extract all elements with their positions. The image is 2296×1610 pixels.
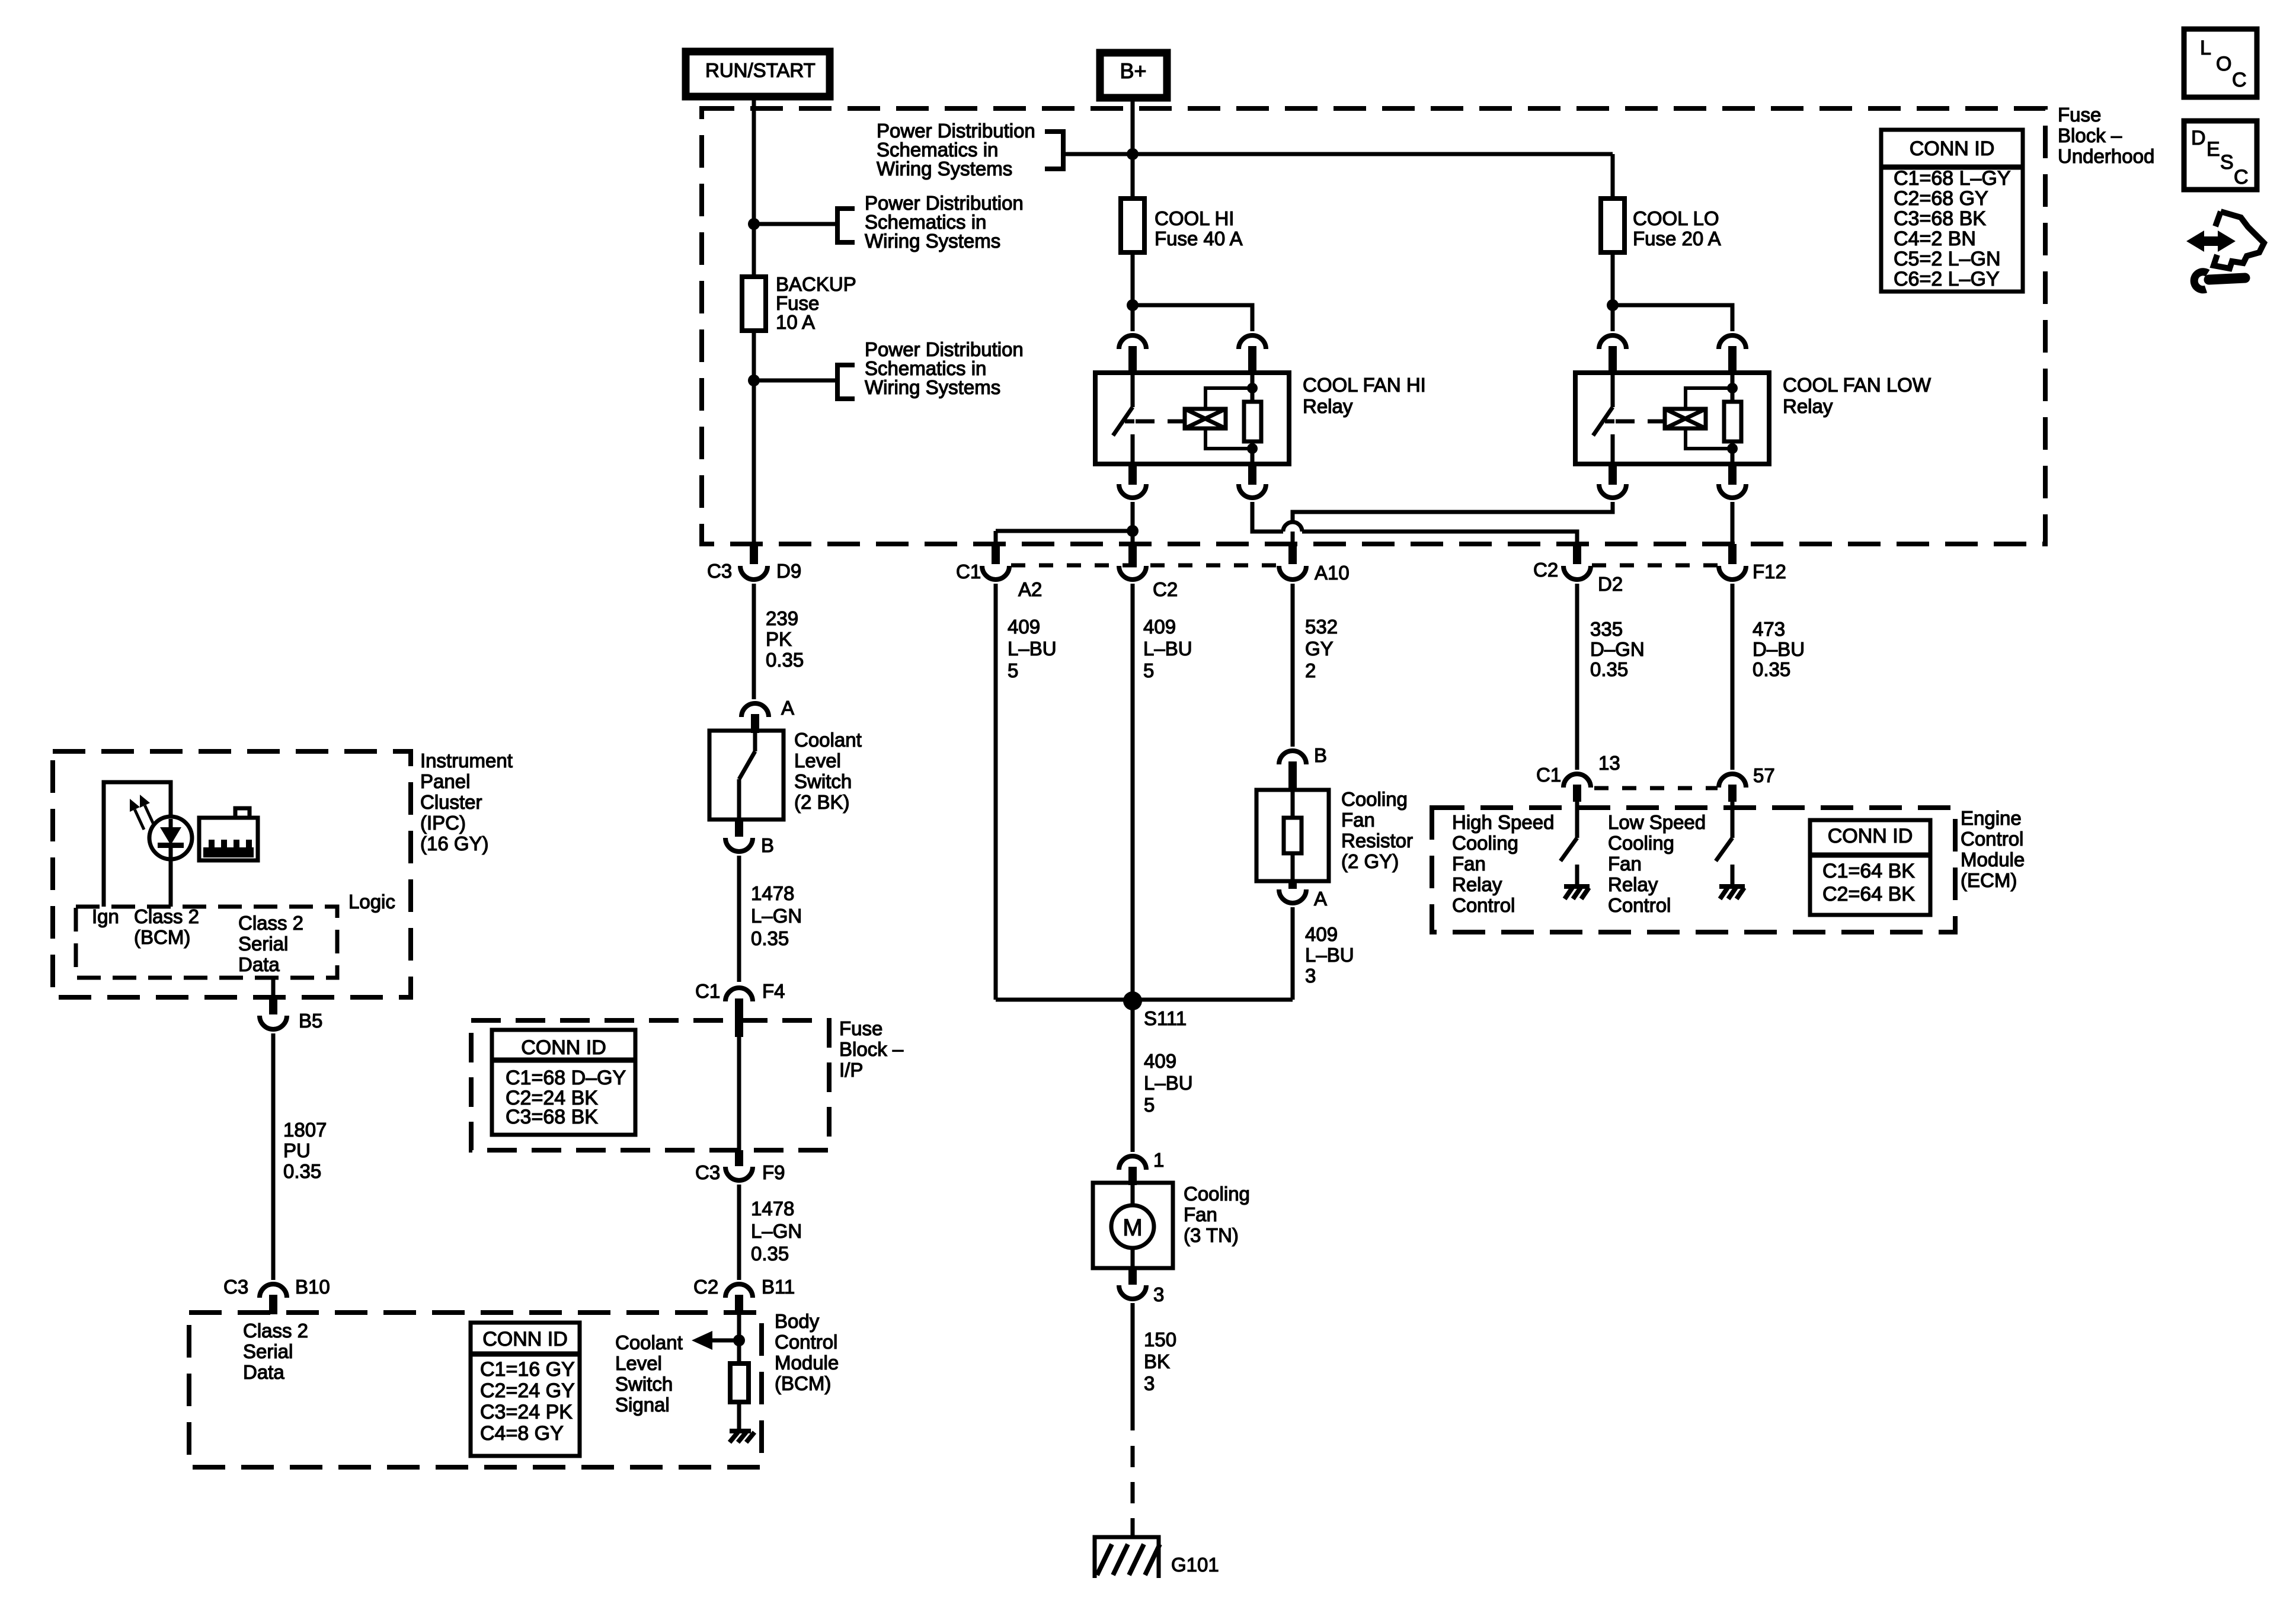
svg-text:473: 473: [1753, 618, 1785, 640]
svg-text:Cluster: Cluster: [420, 791, 482, 813]
svg-text:C2=24 GY: C2=24 GY: [480, 1379, 575, 1402]
svg-text:0.35: 0.35: [766, 649, 804, 671]
svg-text:409: 409: [1143, 616, 1176, 638]
svg-text:PK: PK: [766, 628, 792, 650]
svg-text:Relay: Relay: [1303, 395, 1353, 417]
svg-text:Control: Control: [775, 1331, 837, 1353]
svg-text:Engine: Engine: [1961, 807, 2022, 829]
svg-text:B+: B+: [1120, 59, 1146, 83]
svg-text:(BCM): (BCM): [775, 1372, 831, 1394]
svg-text:57: 57: [1753, 764, 1775, 786]
svg-text:C2: C2: [1153, 578, 1178, 600]
svg-text:(BCM): (BCM): [134, 926, 190, 948]
svg-text:Relay: Relay: [1783, 395, 1833, 417]
svg-text:C1=16 GY: C1=16 GY: [480, 1358, 575, 1381]
svg-text:Fan: Fan: [1184, 1204, 1217, 1225]
svg-text:C3=24 PK: C3=24 PK: [480, 1401, 573, 1423]
svg-text:C4=8 GY: C4=8 GY: [480, 1422, 564, 1445]
svg-text:F4: F4: [762, 980, 785, 1002]
svg-text:3: 3: [1144, 1372, 1155, 1394]
svg-text:CONN ID: CONN ID: [1910, 137, 1995, 160]
svg-text:D2: D2: [1598, 573, 1623, 595]
svg-text:Wiring Systems: Wiring Systems: [865, 376, 1000, 398]
svg-text:L–GN: L–GN: [751, 905, 802, 927]
svg-text:C1: C1: [695, 980, 720, 1002]
svg-text:G101: G101: [1171, 1554, 1219, 1576]
svg-text:RUN/START: RUN/START: [705, 59, 816, 81]
svg-text:Fuse 40 A: Fuse 40 A: [1155, 228, 1243, 249]
svg-text:C3=68 BK: C3=68 BK: [506, 1106, 598, 1128]
svg-text:Module: Module: [775, 1352, 839, 1374]
svg-text:Fuse: Fuse: [839, 1017, 882, 1039]
svg-text:C2: C2: [1533, 559, 1558, 581]
svg-text:C6=2 L–GY: C6=2 L–GY: [1894, 268, 2000, 290]
svg-text:C2=64 BK: C2=64 BK: [1822, 883, 1915, 905]
svg-text:239: 239: [766, 607, 798, 629]
svg-text:Cooling: Cooling: [1608, 832, 1674, 854]
svg-text:Cooling: Cooling: [1184, 1183, 1250, 1205]
svg-text:Panel: Panel: [420, 770, 470, 792]
svg-text:Underhood: Underhood: [2058, 145, 2154, 167]
svg-text:A10: A10: [1315, 562, 1350, 584]
svg-text:Serial: Serial: [243, 1340, 293, 1362]
svg-text:C1: C1: [956, 561, 981, 582]
svg-text:150: 150: [1144, 1329, 1176, 1350]
svg-text:(2 BK): (2 BK): [794, 791, 850, 813]
svg-text:B11: B11: [762, 1276, 795, 1298]
svg-text:Fan: Fan: [1452, 853, 1486, 875]
svg-text:Serial: Serial: [238, 933, 288, 955]
svg-text:L–BU: L–BU: [1144, 1072, 1193, 1094]
svg-text:409: 409: [1144, 1050, 1176, 1072]
svg-text:S111: S111: [1144, 1007, 1187, 1029]
svg-text:1478: 1478: [751, 882, 794, 904]
svg-text:3: 3: [1305, 965, 1316, 987]
svg-text:Control: Control: [1608, 894, 1671, 916]
svg-text:Switch: Switch: [615, 1373, 673, 1395]
svg-text:Data: Data: [238, 953, 280, 975]
svg-text:GY: GY: [1305, 638, 1334, 660]
svg-text:COOL FAN HI: COOL FAN HI: [1303, 374, 1426, 396]
svg-text:Ign: Ign: [92, 905, 119, 927]
svg-text:5: 5: [1008, 660, 1018, 681]
svg-text:5: 5: [1144, 1094, 1155, 1116]
svg-text:(3 TN): (3 TN): [1184, 1224, 1239, 1246]
svg-text:L–BU: L–BU: [1305, 944, 1354, 966]
svg-text:C1=64 BK: C1=64 BK: [1822, 860, 1915, 882]
svg-text:Fan: Fan: [1608, 853, 1642, 875]
svg-text:COOL LO: COOL LO: [1633, 207, 1719, 229]
svg-text:Low Speed: Low Speed: [1608, 811, 1706, 833]
svg-text:D9: D9: [776, 560, 801, 582]
svg-text:335: 335: [1590, 618, 1623, 640]
svg-text:0.35: 0.35: [1590, 658, 1628, 680]
svg-text:D: D: [2191, 127, 2206, 149]
svg-text:Control: Control: [1961, 828, 2023, 850]
svg-text:S: S: [2220, 151, 2234, 174]
svg-text:0.35: 0.35: [751, 927, 789, 949]
svg-text:13: 13: [1598, 752, 1620, 774]
svg-text:COOL HI: COOL HI: [1155, 207, 1234, 229]
svg-text:Wiring Systems: Wiring Systems: [877, 158, 1012, 180]
svg-text:F9: F9: [762, 1161, 785, 1183]
svg-text:C: C: [2232, 69, 2247, 91]
svg-text:C3: C3: [223, 1276, 248, 1298]
svg-text:2: 2: [1305, 660, 1316, 681]
svg-text:CONN ID: CONN ID: [521, 1036, 606, 1059]
svg-text:BK: BK: [1144, 1350, 1170, 1372]
svg-text:C5=2 L–GN: C5=2 L–GN: [1894, 248, 2001, 270]
svg-text:Wiring Systems: Wiring Systems: [865, 230, 1000, 252]
svg-text:(2 GY): (2 GY): [1341, 850, 1399, 872]
svg-text:C3: C3: [695, 1161, 720, 1183]
svg-text:0.35: 0.35: [751, 1243, 789, 1265]
svg-text:A2: A2: [1018, 578, 1042, 600]
svg-text:Logic: Logic: [348, 891, 395, 913]
svg-text:L–BU: L–BU: [1008, 638, 1057, 660]
svg-text:409: 409: [1305, 923, 1338, 945]
svg-text:Class 2: Class 2: [243, 1320, 308, 1342]
svg-text:Block –: Block –: [2058, 124, 2122, 146]
svg-text:C4=2 BN: C4=2 BN: [1894, 228, 1976, 250]
svg-text:532: 532: [1305, 616, 1338, 638]
svg-text:Control: Control: [1452, 894, 1515, 916]
svg-text:CONN ID: CONN ID: [1828, 825, 1913, 847]
svg-text:Fuse: Fuse: [2058, 104, 2101, 126]
svg-text:O: O: [2216, 53, 2231, 75]
svg-text:CONN ID: CONN ID: [482, 1328, 568, 1350]
svg-text:High Speed: High Speed: [1452, 811, 1554, 833]
svg-text:B10: B10: [295, 1276, 330, 1298]
svg-text:Cooling: Cooling: [1341, 788, 1408, 810]
svg-text:C1=68 L–GY: C1=68 L–GY: [1894, 167, 2011, 190]
svg-text:C: C: [2234, 166, 2249, 188]
svg-text:A: A: [781, 697, 794, 719]
svg-text:1: 1: [1153, 1149, 1164, 1171]
svg-text:0.35: 0.35: [1753, 658, 1790, 680]
svg-text:1807: 1807: [283, 1119, 327, 1141]
svg-text:Data: Data: [243, 1361, 284, 1383]
svg-text:C2: C2: [693, 1276, 718, 1298]
svg-text:Class 2: Class 2: [134, 905, 199, 927]
svg-text:Resistor: Resistor: [1341, 830, 1413, 852]
svg-text:10 A: 10 A: [776, 311, 815, 333]
svg-text:E: E: [2207, 138, 2220, 161]
svg-text:C3: C3: [707, 560, 732, 582]
svg-text:L–GN: L–GN: [751, 1220, 802, 1242]
svg-text:F12: F12: [1753, 561, 1786, 582]
svg-text:Level: Level: [615, 1352, 662, 1374]
svg-text:Level: Level: [794, 750, 841, 772]
svg-text:C1=68 D–GY: C1=68 D–GY: [506, 1067, 626, 1089]
svg-text:D–GN: D–GN: [1590, 638, 1645, 660]
svg-text:(ECM): (ECM): [1961, 869, 2017, 891]
svg-text:Block –: Block –: [839, 1038, 904, 1060]
svg-text:C2=68 GY: C2=68 GY: [1894, 187, 1988, 210]
svg-text:3: 3: [1153, 1283, 1164, 1305]
svg-text:Cooling: Cooling: [1452, 832, 1518, 854]
svg-text:Switch: Switch: [794, 770, 852, 792]
svg-text:Module: Module: [1961, 849, 2025, 870]
svg-text:Class 2: Class 2: [238, 912, 303, 934]
svg-text:COOL FAN LOW: COOL FAN LOW: [1783, 374, 1932, 396]
svg-text:Relay: Relay: [1452, 873, 1502, 895]
svg-text:D–BU: D–BU: [1753, 638, 1805, 660]
svg-text:I/P: I/P: [839, 1059, 863, 1081]
svg-text:PU: PU: [283, 1140, 311, 1161]
svg-text:B5: B5: [299, 1010, 322, 1032]
svg-text:L–BU: L–BU: [1143, 638, 1192, 660]
svg-text:(IPC): (IPC): [420, 812, 466, 834]
svg-text:M: M: [1123, 1215, 1142, 1241]
svg-text:A: A: [1314, 888, 1327, 910]
svg-text:Body: Body: [775, 1310, 820, 1332]
svg-text:1478: 1478: [751, 1198, 794, 1219]
svg-text:Coolant: Coolant: [794, 729, 862, 751]
svg-text:(16 GY): (16 GY): [420, 833, 489, 854]
svg-text:B: B: [761, 834, 774, 856]
svg-text:Fan: Fan: [1341, 809, 1375, 831]
svg-text:Signal: Signal: [615, 1394, 670, 1416]
svg-text:409: 409: [1008, 616, 1040, 638]
svg-text:L: L: [2200, 37, 2211, 59]
svg-text:5: 5: [1143, 660, 1154, 681]
svg-text:0.35: 0.35: [283, 1160, 321, 1182]
svg-text:C1: C1: [1536, 764, 1561, 786]
svg-text:Coolant: Coolant: [615, 1331, 683, 1353]
svg-text:Instrument: Instrument: [420, 750, 513, 772]
svg-text:Fuse 20 A: Fuse 20 A: [1633, 228, 1721, 249]
svg-text:Relay: Relay: [1608, 873, 1658, 895]
svg-text:B: B: [1314, 744, 1327, 766]
svg-text:C3=68 BK: C3=68 BK: [1894, 207, 1986, 230]
